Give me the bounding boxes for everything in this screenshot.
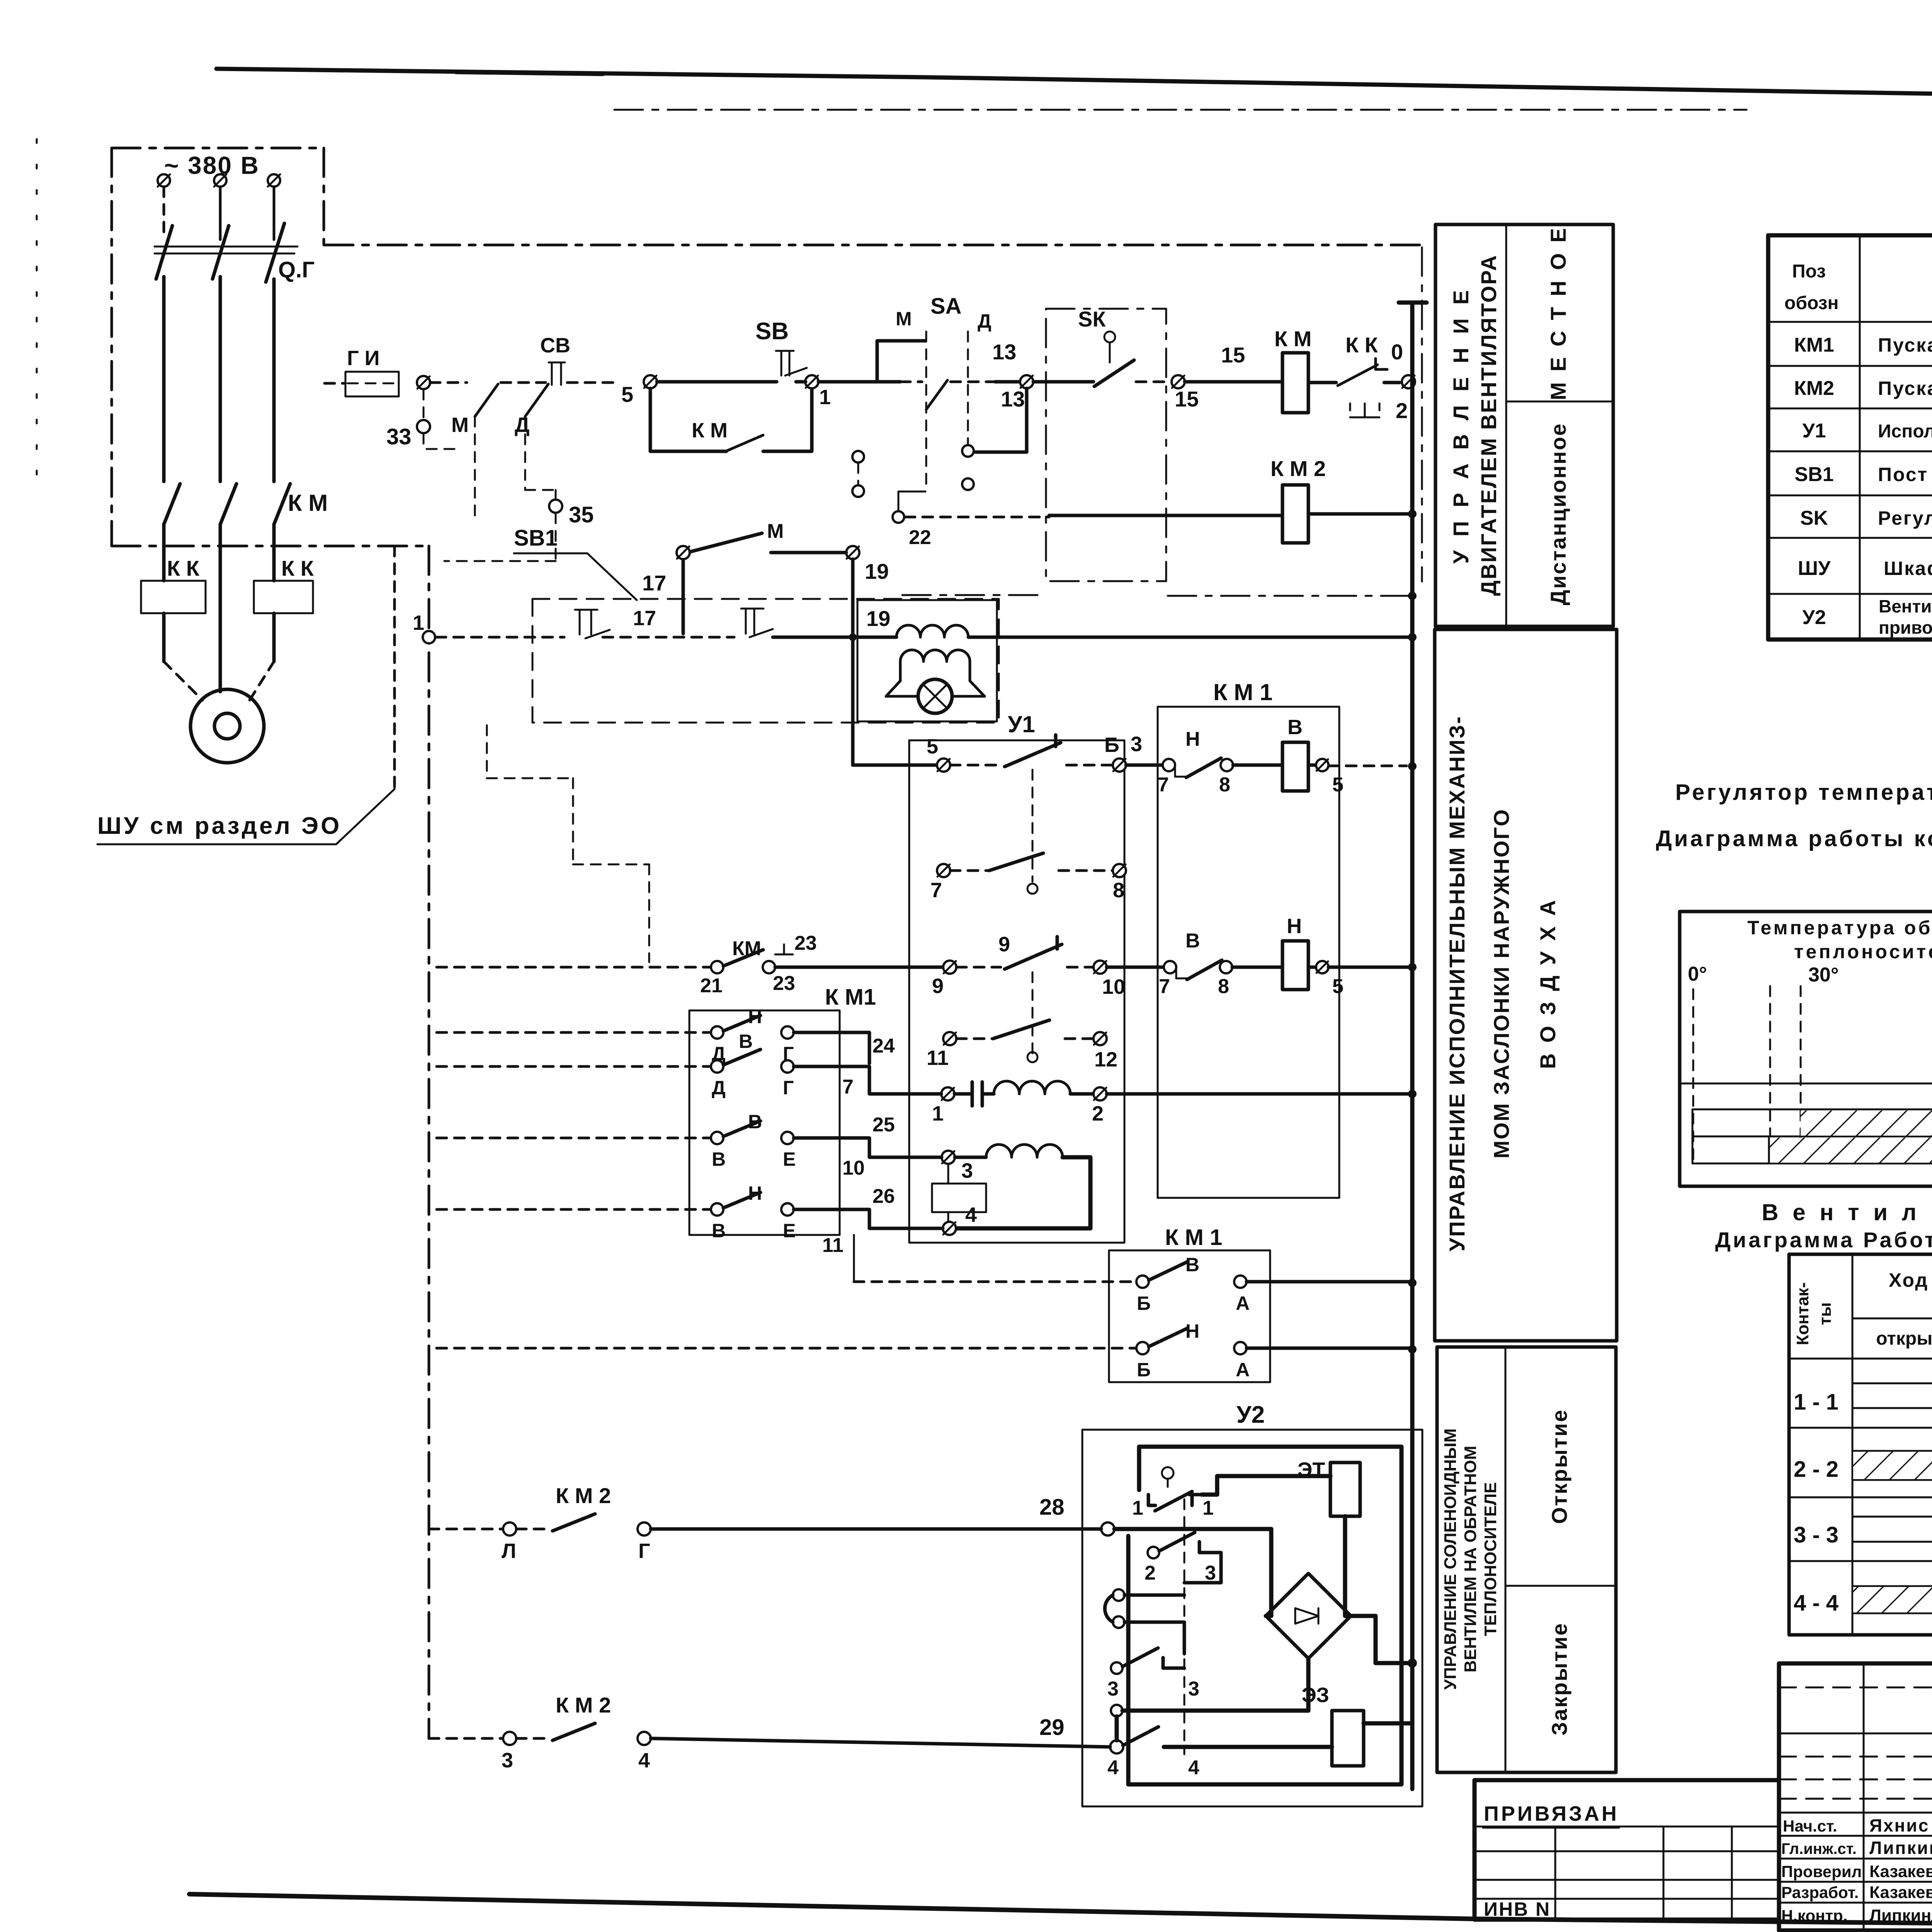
dashed rail line y634	[325, 244, 1422, 247]
svg-text:Д: Д	[978, 310, 992, 332]
U2 contact table	[1789, 1254, 1932, 1635]
svg-text:Липкинд: Липкинд	[1869, 1906, 1932, 1925]
svg-text:К М1: К М1	[825, 985, 876, 1010]
svg-text:2: 2	[1396, 398, 1408, 423]
svg-text:35: 35	[569, 502, 594, 527]
contact 3-3	[1111, 1662, 1122, 1674]
wire pin10 to KM1	[1107, 966, 1162, 969]
svg-text:ТЕПЛОНОСИТЕЛЕ: ТЕПЛОНОСИТЕЛЕ	[1481, 1482, 1500, 1636]
button SB1 stop	[575, 610, 610, 638]
resistor U1	[947, 1164, 949, 1221]
motor winding 1	[982, 1092, 994, 1096]
contactor KM main blade C	[274, 484, 290, 524]
wire row1	[951, 381, 995, 383]
svg-text:SB: SB	[755, 318, 789, 345]
changeover contact U1 upper	[950, 764, 1000, 767]
U2 row separators	[1789, 1428, 1932, 1561]
linkage dashed	[1184, 1499, 1185, 1754]
SK temperature chart box	[1680, 912, 1932, 1186]
wire coil KM2 to rail	[1308, 512, 1412, 516]
svg-text:Казакевич: Казакевич	[1869, 1862, 1932, 1881]
svg-text:В: В	[1185, 930, 1200, 952]
transformer primary	[896, 625, 968, 637]
svg-text:7: 7	[842, 1076, 854, 1098]
wire row KM21-23 dashed from rail	[437, 966, 711, 969]
wire ET to bridge	[1345, 1516, 1351, 1616]
svg-text:У1: У1	[1008, 711, 1035, 737]
wire 29 long	[651, 1738, 1110, 1747]
svg-text:Н: Н	[1185, 1320, 1199, 1342]
thermal relay KK heater 2	[254, 581, 313, 613]
wire row 29 from rail	[429, 1737, 503, 1740]
svg-text:Г И: Г И	[347, 347, 379, 370]
node 17	[677, 546, 690, 559]
pin 6 (B)	[1113, 759, 1126, 772]
svg-text:SВ1: SВ1	[514, 526, 558, 551]
svg-text:3: 3	[502, 1749, 513, 1772]
svg-text:Поз: Поз	[1792, 261, 1826, 282]
svg-text:В О З Д У Х А: В О З Д У Х А	[1536, 898, 1560, 1069]
transformer secondary	[900, 650, 970, 662]
wire row1 into SK box	[1033, 380, 1094, 384]
svg-text:В е н т и л ь У2: В е н т и л ь У2	[1762, 1199, 1932, 1225]
svg-text:3: 3	[1131, 733, 1142, 756]
wire row 28 from rail	[429, 1528, 503, 1531]
svg-text:29: 29	[1039, 1715, 1065, 1740]
changeover contact U1 mid	[956, 966, 1001, 969]
contact U1 7-8	[937, 864, 950, 877]
svg-text:М Е С Т Н О Е: М Е С Т Н О Е	[1546, 226, 1570, 400]
svg-text:Л: Л	[502, 1539, 516, 1563]
svg-text:21: 21	[700, 975, 723, 997]
svg-text:3 - 3: 3 - 3	[1794, 1522, 1838, 1548]
svg-text:Вентиль с электромагнитным: Вентиль с электромагнитным	[1879, 596, 1932, 616]
valve U2 inner box	[1128, 1447, 1401, 1784]
node 22	[893, 511, 904, 523]
svg-text:3: 3	[1205, 1562, 1216, 1584]
svg-text:Пускатель магнитный ПМЕ - 08: Пускатель магнитный ПМЕ - 083	[1878, 334, 1932, 356]
node 5	[644, 375, 657, 388]
dashed link x1021	[393, 546, 396, 789]
svg-text:открыт: открыт	[1876, 1328, 1932, 1349]
svg-text:SB1: SB1	[1794, 463, 1833, 486]
SK chart contact line	[1680, 1083, 1932, 1085]
lamp box	[857, 600, 997, 721]
svg-text:Регулятор температуры ТУДЭ-4: Регулятор температуры ТУДЭ-4	[1878, 507, 1932, 529]
svg-text:У1: У1	[1802, 420, 1826, 442]
node 1 on rail	[423, 631, 435, 643]
terminal L2	[214, 174, 226, 187]
svg-text:8: 8	[1113, 879, 1124, 902]
svg-text:Н: Н	[1287, 915, 1302, 938]
svg-text:КМ: КМ	[732, 937, 761, 960]
title block left extension	[1475, 1780, 1779, 1920]
wire B row from U1 area	[854, 1281, 1136, 1283]
svg-text:5: 5	[621, 382, 633, 406]
svg-text:В: В	[1185, 1254, 1199, 1276]
wire row4 to transformer	[773, 636, 896, 639]
diode bridge	[1266, 1573, 1351, 1658]
svg-text:Казакевич: Казакевич	[1869, 1883, 1932, 1902]
svg-text:Диаграмма работы контактов: Диаграмма работы контактов	[1656, 826, 1932, 851]
svg-text:В: В	[712, 1220, 726, 1242]
svg-text:ЭТ: ЭТ	[1298, 1458, 1325, 1481]
terminal node after GI	[417, 376, 430, 389]
node 15	[1172, 375, 1185, 388]
svg-text:SК: SК	[1078, 307, 1106, 331]
svg-text:2: 2	[1092, 1102, 1104, 1125]
wire row3 stub	[682, 559, 685, 634]
svg-text:SA: SA	[930, 294, 962, 319]
wire pin2 to rail	[1107, 1092, 1412, 1096]
svg-text:Н: Н	[748, 1006, 762, 1027]
node 1'	[805, 375, 818, 388]
wire row1 to KM coil	[1185, 380, 1282, 384]
svg-text:К М: К М	[288, 490, 328, 516]
svg-text:УПРАВЛЕНИЕ ИСПОЛНИТЕЛЬНЫМ МЕ: УПРАВЛЕНИЕ ИСПОЛНИТЕЛЬНЫМ МЕХАНИЗ-	[1445, 715, 1469, 1251]
wire phase A drop	[163, 187, 165, 232]
heater ET	[1330, 1463, 1360, 1516]
svg-text:приводом 15 кч 892 п: приводом 15 кч 892 п	[1879, 617, 1932, 638]
svg-text:3: 3	[1188, 1678, 1199, 1700]
contactor KM main blade B	[220, 484, 236, 524]
jumper contacts	[1113, 1589, 1124, 1601]
svg-text:Б: Б	[1137, 1293, 1151, 1314]
svg-text:1: 1	[413, 611, 424, 634]
contact c V	[711, 1132, 723, 1144]
svg-text:10: 10	[1102, 975, 1125, 998]
component table grid	[1768, 235, 1932, 639]
wire row d dashed	[437, 1208, 711, 1211]
svg-text:4 - 4: 4 - 4	[1794, 1590, 1838, 1616]
wire 4-4 to EZ	[1164, 1745, 1332, 1749]
svg-text:Ход выходного: Ход выходного	[1889, 1269, 1932, 1291]
svg-text:4: 4	[965, 1203, 977, 1226]
svg-text:К К: К К	[281, 556, 314, 580]
svg-text:23: 23	[794, 932, 817, 954]
svg-text:1: 1	[819, 386, 831, 409]
dashed enclosure remote section	[902, 247, 1422, 596]
svg-text:26: 26	[872, 1185, 895, 1207]
motor winding 2	[955, 1156, 986, 1159]
svg-text:7: 7	[1158, 774, 1169, 796]
wire phase B drop	[219, 187, 222, 240]
svg-text:Проверил: Проверил	[1781, 1862, 1862, 1881]
svg-text:К М 2: К М 2	[1270, 456, 1326, 481]
svg-text:Дистанционное: Дистанционное	[1546, 423, 1570, 605]
switch M (local)	[474, 417, 476, 522]
svg-text:12: 12	[1094, 1048, 1117, 1071]
svg-text:СВ: СВ	[540, 334, 570, 357]
wire phase C drop	[273, 187, 276, 240]
svg-text:Д: Д	[712, 1077, 726, 1099]
wire to heaters C	[272, 524, 276, 581]
svg-text:~ 380 В: ~ 380 В	[164, 151, 260, 179]
cabinet ShU dashed boundary	[112, 148, 427, 546]
contact SK	[1104, 332, 1115, 342]
wire SB1 step link	[487, 725, 649, 962]
contact B aux	[1136, 1276, 1149, 1288]
svg-text:5: 5	[1332, 774, 1344, 796]
column box fan motor control	[1435, 224, 1613, 626]
svg-text:11: 11	[927, 1046, 949, 1070]
svg-text:Температура обратного: Температура обратного	[1747, 917, 1932, 939]
sheet bottom border	[189, 1894, 1932, 1929]
svg-text:М: М	[896, 308, 912, 330]
SA blade on row1	[926, 380, 947, 410]
svg-text:К М 2: К М 2	[556, 1693, 611, 1717]
SK chart scale dashed lines	[1693, 986, 1932, 1163]
svg-text:Д: Д	[515, 413, 529, 437]
svg-text:А: А	[1236, 1359, 1250, 1381]
node 13	[1020, 375, 1033, 388]
wire 13 loop to SA contact	[975, 388, 1027, 452]
svg-text:ШУ см раздел ЭО: ШУ см раздел ЭО	[97, 813, 342, 839]
wire heater A to motor	[162, 613, 166, 662]
svg-text:11: 11	[822, 1234, 844, 1257]
regulator SK dashed box	[1046, 309, 1166, 581]
wire row b dashed	[437, 1065, 711, 1068]
wire 28 into U2	[1114, 1529, 1271, 1616]
svg-text:Контак-: Контак-	[1793, 1282, 1812, 1345]
terminal L1	[158, 174, 170, 187]
pin 4	[943, 1222, 956, 1235]
pin 9	[943, 961, 956, 974]
svg-text:К М 1: К М 1	[1165, 1225, 1222, 1250]
contact 4-4	[1123, 1727, 1158, 1745]
SA contact circle b	[962, 478, 974, 490]
svg-text:В: В	[1287, 716, 1303, 739]
svg-text:Б: Б	[1137, 1359, 1151, 1381]
svg-text:У П Р А В Л Е Н И Е: У П Р А В Л Е Н И Е	[1449, 286, 1473, 564]
svg-text:ты: ты	[1816, 1302, 1835, 1325]
contact 2-2	[1148, 1547, 1159, 1558]
svg-text:Яхнис: Яхнис	[1869, 1815, 1929, 1835]
wire to rail	[1247, 1280, 1412, 1284]
thermal relay KK heater 1	[141, 581, 206, 613]
svg-text:17: 17	[633, 607, 656, 630]
terminal L3	[268, 174, 280, 187]
svg-text:1: 1	[1132, 1497, 1143, 1519]
svg-text:28: 28	[1039, 1495, 1065, 1520]
svg-text:17: 17	[642, 571, 666, 595]
svg-text:8: 8	[1218, 975, 1229, 998]
wire heater C to motor	[272, 613, 276, 662]
coil N (close damper)	[1282, 941, 1308, 990]
pin 1 capacitor row	[941, 1087, 954, 1100]
svg-text:Регулятор температуры SК: Регулятор температуры SК	[1675, 780, 1932, 805]
wire phase B	[219, 277, 222, 481]
contact M aux	[690, 533, 762, 552]
svg-text:Открытие: Открытие	[1547, 1409, 1571, 1524]
contact KM2 b	[503, 1732, 516, 1745]
sheet top border	[216, 69, 1932, 105]
svg-text:Пост управления ПКУ-15: Пост управления ПКУ-15	[1878, 464, 1932, 485]
wire row1 to SA	[796, 380, 900, 384]
end switch box	[689, 1010, 840, 1235]
motor M	[190, 689, 264, 763]
svg-text:Е: Е	[783, 1148, 796, 1170]
wire row2 dashed	[905, 516, 1049, 519]
pin 2	[1094, 1087, 1107, 1100]
wire coil B to rail	[1328, 765, 1406, 767]
svg-text:М: М	[451, 413, 469, 437]
node 35	[525, 490, 556, 499]
svg-text:У2: У2	[1236, 1401, 1265, 1428]
node 19	[846, 546, 859, 559]
svg-text:19: 19	[865, 559, 889, 583]
svg-text:К М: К М	[1274, 327, 1311, 351]
wire motor leads	[164, 662, 202, 700]
switch QF busbar	[155, 247, 298, 253]
svg-text:4: 4	[1107, 1757, 1119, 1779]
contact KM self-hold loop	[650, 388, 812, 451]
wire row a dashed	[437, 1031, 711, 1034]
svg-text:3: 3	[1107, 1678, 1119, 1700]
contact KM1 B row	[1163, 759, 1175, 771]
title block columns	[1864, 1663, 1932, 1930]
svg-text:теплоносителя: теплоносителя	[1794, 941, 1932, 963]
svg-text:9: 9	[998, 933, 1010, 956]
svg-text:ДВИГАТЕЛЕМ ВЕНТИЛЯТОРА: ДВИГАТЕЛЕМ ВЕНТИЛЯТОРА	[1476, 254, 1501, 596]
pin 3 winding row	[942, 1151, 955, 1164]
cabinet rail x1110	[428, 546, 430, 1738]
svg-text:25: 25	[872, 1114, 895, 1136]
lamp HL	[886, 662, 985, 696]
svg-text:К М 1: К М 1	[1213, 679, 1272, 705]
svg-text:МОМ ЗАСЛОНКИ НАРУЖНОГО: МОМ ЗАСЛОНКИ НАРУЖНОГО	[1489, 808, 1514, 1158]
svg-text:В: В	[712, 1148, 726, 1170]
svg-text:К К: К К	[1345, 333, 1378, 357]
svg-text:1: 1	[1202, 1497, 1214, 1519]
svg-text:30°: 30°	[1808, 964, 1839, 986]
switch QF blade A	[156, 226, 172, 279]
svg-text:22: 22	[909, 526, 931, 549]
button SB1 start	[741, 609, 773, 637]
svg-text:8: 8	[1219, 774, 1230, 796]
svg-text:4: 4	[1188, 1757, 1199, 1779]
contact d N	[711, 1203, 723, 1216]
wire M riser	[877, 341, 925, 382]
contact N aux	[1136, 1342, 1149, 1354]
svg-text:2: 2	[1145, 1562, 1156, 1584]
svg-text:Б: Б	[1104, 733, 1119, 757]
svg-text:7: 7	[930, 879, 942, 902]
svg-text:13: 13	[1001, 387, 1025, 411]
contact 1-1	[1162, 1467, 1173, 1479]
svg-text:19: 19	[866, 606, 890, 631]
svg-text:ВЕНТИЛЕМ НА ОБРАТНОМ: ВЕНТИЛЕМ НА ОБРАТНОМ	[1461, 1446, 1480, 1673]
svg-text:1: 1	[932, 1102, 944, 1125]
wire row4	[436, 636, 564, 639]
capacitor U1	[954, 1082, 982, 1106]
right control rail	[1399, 303, 1427, 1789]
svg-text:Шкаф управления: Шкаф управления	[1884, 558, 1932, 579]
svg-text:К М 2: К М 2	[556, 1483, 611, 1508]
contactor KM main blade A	[164, 484, 180, 524]
wire row c dashed	[437, 1137, 711, 1139]
SA M position contacts	[852, 451, 864, 463]
svg-text:Липкинд: Липкинд	[1869, 1838, 1932, 1858]
svg-text:2 - 2: 2 - 2	[1794, 1457, 1838, 1482]
wire bridge bottom	[1306, 1658, 1311, 1711]
winding loop	[956, 1157, 1090, 1228]
wire 19 to pin5	[853, 764, 937, 767]
wire 23 to U1 pin9	[775, 966, 943, 969]
svg-text:15: 15	[1175, 387, 1199, 411]
contactor KM1 aux box	[1109, 1250, 1270, 1382]
wire phase A	[162, 277, 166, 481]
svg-text:Г: Г	[783, 1077, 794, 1099]
svg-text:ШУ: ШУ	[1798, 557, 1831, 580]
svg-text:У2: У2	[1802, 606, 1826, 629]
svg-text:Гл.инж.ст.: Гл.инж.ст.	[1781, 1840, 1857, 1857]
wire row1 from GI to M	[430, 381, 467, 384]
wire row4	[603, 636, 734, 639]
svg-text:10: 10	[842, 1157, 865, 1179]
svg-text:Закрытие: Закрытие	[1547, 1622, 1571, 1735]
column box solenoid valve control	[1437, 1347, 1616, 1772]
svg-text:Е: Е	[783, 1220, 796, 1242]
svg-text:13: 13	[992, 340, 1016, 364]
svg-text:Нач.ст.: Нач.ст.	[1783, 1817, 1837, 1835]
switch QF blade B	[213, 226, 229, 279]
wire 28 long	[651, 1527, 1101, 1531]
node 0-2 terminal	[1402, 375, 1415, 388]
svg-text:SK: SK	[1800, 507, 1828, 529]
svg-text:23: 23	[773, 972, 795, 995]
column box damper actuator control	[1435, 629, 1617, 1341]
svg-text:В: В	[739, 1031, 753, 1052]
wire row1	[567, 381, 618, 384]
contact KM 21-23	[711, 961, 723, 973]
wire 19 drop	[851, 559, 855, 765]
svg-text:0: 0	[1391, 340, 1403, 364]
wire to rail	[1247, 1347, 1412, 1350]
svg-text:М: М	[767, 520, 784, 543]
svg-text:7: 7	[1159, 975, 1170, 998]
switch D (remote)	[524, 417, 526, 490]
wire row1 node5 to SB	[657, 380, 777, 384]
title block rows left	[1779, 1687, 1932, 1799]
SA contact circle a	[962, 445, 974, 457]
contact a N	[711, 1026, 723, 1039]
SA linkage D	[967, 332, 969, 444]
svg-text:Разработ.: Разработ.	[1781, 1883, 1859, 1901]
wire row2 to coil	[1049, 514, 1282, 517]
SK bar hatch upper	[1801, 1111, 1932, 1136]
svg-text:3: 3	[961, 1159, 973, 1182]
svg-text:4: 4	[638, 1749, 650, 1772]
svg-text:Q.Г: Q.Г	[278, 257, 315, 282]
coil B (open damper)	[1282, 742, 1308, 791]
svg-text:Г: Г	[638, 1539, 650, 1563]
svg-text:КМ2: КМ2	[1794, 377, 1834, 400]
pin 5	[937, 759, 950, 772]
svg-text:9: 9	[932, 975, 944, 998]
sheet left edge remnant	[36, 139, 38, 483]
svg-text:А: А	[1236, 1293, 1250, 1314]
svg-text:Диаграмма Работы контактов: Диаграмма Работы контактов	[1715, 1228, 1932, 1252]
switch QF blade C	[266, 223, 284, 282]
wire to ET	[1202, 1476, 1330, 1495]
svg-text:УПРАВЛЕНИЕ СОЛЕНОИДНЫМ: УПРАВЛЕНИЕ СОЛЕНОИДНЫМ	[1441, 1429, 1460, 1690]
valve U2 outer box	[1082, 1430, 1422, 1806]
title block main frame	[1779, 1663, 1932, 1930]
svg-text:Н: Н	[1185, 728, 1200, 750]
contactor KM1 box upper	[1158, 707, 1339, 1198]
svg-text:0°: 0°	[1688, 963, 1707, 985]
